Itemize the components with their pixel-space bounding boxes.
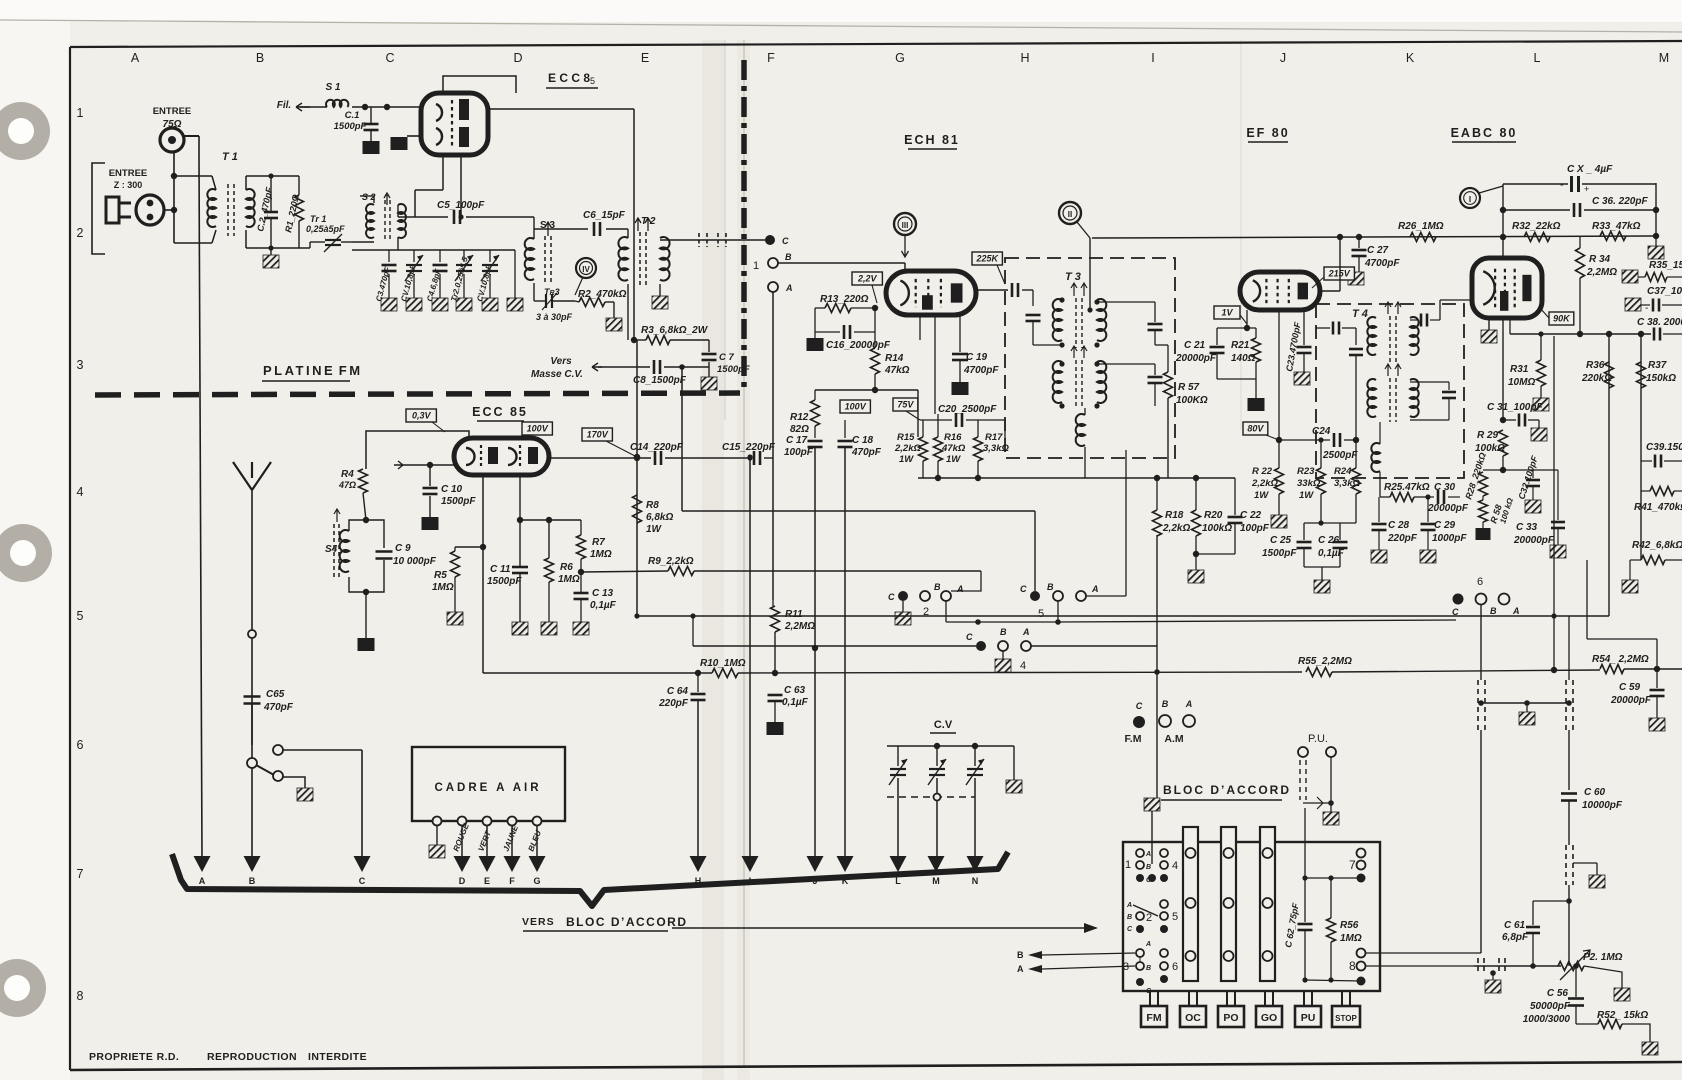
svg-text:C 17: C 17 [786,435,808,446]
svg-text:G: G [533,876,540,886]
ground under R31 [1533,398,1549,411]
ground under switch [297,788,313,801]
svg-text:B: B [1017,950,1024,960]
wires from tube down to FM coils [442,155,444,190]
svg-text:5: 5 [1172,911,1178,923]
socket 4 contacts [976,641,986,651]
svg-text:1W: 1W [1299,490,1314,501]
svg-text:1W: 1W [946,454,961,465]
svg-text:PLATINE FM: PLATINE FM [263,363,363,378]
svg-text:7: 7 [77,867,84,881]
svg-text:C 10: C 10 [441,484,463,495]
svg-text:R6: R6 [560,562,573,573]
svg-text:R37: R37 [1648,360,1667,371]
svg-text:PU: PU [1301,1012,1316,1024]
socket 1 contacts C B A [765,235,775,245]
svg-text:6,8pF: 6,8pF [1502,932,1529,943]
tube ECC85 [454,438,549,475]
svg-text:Masse C.V.: Masse C.V. [531,369,583,380]
svg-text:6: 6 [1172,961,1178,973]
svg-text:R35_15: R35_15 [1649,260,1682,271]
svg-text:4: 4 [77,485,84,499]
svg-text:E: E [641,51,649,65]
svg-text:C 7: C 7 [719,352,735,363]
svg-text:C 11: C 11 [490,564,511,575]
svg-text:1W: 1W [1254,490,1269,501]
socket5 wires [945,601,947,622]
svg-text:-: - [1645,303,1648,314]
svg-text:C: C [1020,584,1027,594]
svg-text:R31: R31 [1510,364,1529,375]
svg-text:L: L [895,876,901,886]
voltage box 2,2V [852,272,882,285]
transformer T4 dashed box [1316,304,1464,478]
svg-text:E: E [484,876,490,886]
T3 right caps [1097,301,1155,303]
svg-text:47kΩ: 47kΩ [884,365,910,376]
svg-text:1: 1 [77,106,84,120]
svg-text:-: - [1560,179,1564,191]
tube EABC80 [1472,258,1542,318]
svg-text:C 28: C 28 [1388,520,1410,531]
arrow A to bloc d'accord [194,856,211,872]
ground under P2 bus [1485,980,1501,993]
antenna terminal bracket [92,163,105,254]
svg-text:C 33: C 33 [1516,522,1538,533]
svg-text:II: II [1068,210,1072,219]
svg-text:2,2V: 2,2V [857,274,878,284]
svg-text:A: A [1091,584,1099,594]
arrow H to bloc d'accord [690,856,707,872]
svg-text:A: A [1145,851,1151,858]
ground under C29 [1420,550,1436,563]
buttons FM OC PO GO PU STOP [1149,991,1151,1006]
svg-text:E C C 8: E C C 8 [548,71,590,85]
svg-text:R23: R23 [1297,466,1315,477]
T4 bottom coil [1371,443,1380,472]
svg-text:C: C [1452,607,1459,617]
ground under C27 [1348,272,1364,285]
wires pins 7 8 to right [1366,952,1481,954]
II wire into T3 [1087,307,1092,312]
coax connector ENTREE 75 [160,128,184,152]
svg-text:1500pF: 1500pF [717,364,750,375]
svg-text:R16: R16 [944,432,962,443]
wire R14 bottom bus [815,389,918,391]
svg-text:2: 2 [1146,912,1152,924]
ground under C31 [1531,428,1547,441]
svg-text:50000pF: 50000pF [1530,1001,1571,1012]
svg-text:Tr 1: Tr 1 [310,214,326,224]
bus wire y478 extension to R18 R20 [1234,478,1236,515]
platine FM boundary dash-dot [95,393,740,395]
svg-text:0,1µF: 0,1µF [1318,548,1345,559]
wire socket1 A down [772,292,774,600]
svg-text:B: B [1127,914,1132,921]
arrow E to bloc d'accord [479,856,496,872]
heavy collector line [172,852,1008,906]
svg-text:10MΩ: 10MΩ [1508,377,1535,388]
ground [482,298,498,311]
svg-text:R54_ 2,2MΩ: R54_ 2,2MΩ [1592,654,1649,665]
arrow L to bloc d'accord [890,856,907,872]
coupling cap to T3 [975,289,1008,291]
T4 primary coils [1367,317,1376,355]
ground under R22 [1271,515,1287,528]
svg-text:R8: R8 [646,500,659,511]
svg-text:Vers: Vers [550,356,572,367]
svg-text:C 22: C 22 [1240,510,1262,521]
punch hole bottom [0,959,46,1017]
switch near antenna [273,745,283,755]
svg-text:M: M [932,876,940,886]
wire pin7 gang vertical [1480,730,1482,953]
arrow K to bloc d'accord [837,856,854,872]
bus into P2 [1474,965,1561,967]
tube ECH81 [886,271,976,315]
svg-text:C 38. 2000: C 38. 2000 [1637,317,1682,328]
svg-text:C.1: C.1 [345,110,360,121]
arrow G to bloc d'accord [529,856,546,872]
junction to C61 [1566,898,1572,904]
svg-text:C 13: C 13 [592,588,614,599]
ground under C25 C26 [1314,580,1330,593]
tube ECH81 pin wires [904,315,906,332]
ground [456,298,472,311]
svg-text:100V: 100V [527,424,549,434]
svg-text:R2_470kΩ: R2_470kΩ [578,289,627,300]
svg-text:C 18: C 18 [852,435,874,446]
EF80 cathode network C21 R21 [1246,310,1248,328]
svg-text:IV: IV [582,265,590,274]
svg-text:R42_6,8kΩ: R42_6,8kΩ [1632,540,1682,551]
svg-text:B: B [1146,965,1151,972]
svg-text:R 22: R 22 [1252,466,1273,477]
svg-text:C 26: C 26 [1318,535,1340,546]
svg-text:100pF: 100pF [784,447,814,458]
arrow I to bloc d'accord [742,856,759,872]
T4 primary right cap [1410,319,1418,321]
svg-text:1500pF: 1500pF [1262,548,1297,559]
svg-text:C14_220pF: C14_220pF [630,442,684,453]
svg-text:R5: R5 [434,570,447,581]
svg-text:470pF: 470pF [851,447,882,458]
bus wire y478 [918,477,1235,479]
svg-text:C 31_100pF: C 31_100pF [1487,402,1543,413]
frame border [70,41,1682,47]
T3 secondary coils [1053,361,1062,403]
wire from R37 col to C59 bus [1586,560,1588,639]
svg-text:R24: R24 [1334,466,1352,477]
svg-text:470pF: 470pF [263,702,294,713]
circled I [1460,188,1480,208]
svg-text:A: A [1022,627,1030,637]
svg-text:C15_220pF: C15_220pF [722,442,776,453]
svg-text:INTERDITE: INTERDITE [308,1051,367,1063]
ground [406,298,422,311]
ground under C13 [573,622,589,635]
svg-text:1MΩ: 1MΩ [590,549,612,560]
svg-text:4700pF: 4700pF [963,365,999,376]
svg-text:R4: R4 [341,469,354,480]
arrow D to bloc d'accord [454,856,471,872]
svg-text:1000pF: 1000pF [1432,533,1467,544]
svg-text:R41_470kΩ: R41_470kΩ [1634,502,1682,513]
svg-text:C: C [966,632,973,642]
slider bar 3 [1260,827,1275,981]
svg-text:B: B [934,582,941,592]
ground under C7 [701,377,717,390]
ground under C10 solid [422,517,439,530]
svg-text:C 59: C 59 [1619,682,1641,693]
T4 secondary coils [1367,379,1376,417]
svg-text:B: B [249,876,256,886]
svg-text:BLOC D’ACCORD: BLOC D’ACCORD [1163,783,1291,797]
svg-text:C: C [359,876,366,886]
voltage box 215V [1324,267,1354,280]
antenna symbol [251,490,253,745]
cadre pins [433,817,442,826]
slider bar 1 [1183,827,1198,981]
svg-text:B: B [1146,864,1151,871]
EABC80 to T4 wire [1440,299,1472,301]
svg-text:P.U.: P.U. [1308,733,1328,745]
svg-text:R52_ 15kΩ: R52_ 15kΩ [1597,1010,1648,1021]
plate bus y334 [1509,320,1511,334]
wire socket5 A extension down [1058,620,1456,622]
svg-text:2,2MΩ: 2,2MΩ [784,621,815,632]
svg-text:N: N [972,876,979,886]
svg-text:C X _ 4µF: C X _ 4µF [1567,164,1613,175]
svg-text:OC: OC [1185,1012,1201,1024]
svg-text:C 19: C 19 [966,352,988,363]
svg-text:C65: C65 [266,689,285,700]
socket 5 contacts [941,591,951,601]
ground right of CV [1013,746,1015,780]
svg-text:1W: 1W [899,454,914,465]
svg-text:C 63: C 63 [784,685,806,696]
svg-text:2,2kΩ: 2,2kΩ [1162,523,1190,534]
svg-text:4: 4 [1020,660,1026,672]
svg-text:+: + [1584,184,1589,194]
svg-text:140Ω: 140Ω [1231,353,1256,364]
wire gang right down to C60 [1568,730,1570,790]
arrow to bloc d'accord [672,927,1092,929]
svg-text:220pF: 220pF [1387,533,1418,544]
variable capacitor section [929,768,945,770]
svg-text:A: A [785,283,793,293]
svg-text:A: A [1126,902,1132,909]
svg-text:C39.150: C39.150 [1646,442,1682,453]
svg-text:GO: GO [1261,1012,1277,1024]
svg-text:D: D [513,51,522,65]
svg-text:1MΩ: 1MΩ [432,582,454,593]
wire y520 R6 R7 [520,519,581,521]
svg-text:5: 5 [590,76,595,86]
svg-text:R18: R18 [1165,510,1184,521]
socket 2 contacts [898,591,908,601]
ground under C63 solid [767,722,784,735]
svg-text:C 25: C 25 [1270,535,1292,546]
svg-text:C 61: C 61 [1504,920,1526,931]
wire socket1 B to ECH81 [778,262,905,264]
ground above bloc [1144,798,1160,811]
svg-text:ECC 85: ECC 85 [472,405,528,419]
variable capacitor section [967,768,983,770]
svg-text:1: 1 [1125,859,1131,871]
svg-text:1MΩ: 1MΩ [558,574,580,585]
svg-text:H: H [1020,51,1029,65]
svg-text:B: B [1047,582,1054,592]
wire tube plate to right [488,108,634,110]
svg-text:3 à 30pF: 3 à 30pF [536,312,573,322]
svg-text:47kΩ: 47kΩ [941,443,966,454]
T4 right cap lower [1410,381,1449,383]
svg-text:Fil.: Fil. [277,100,291,111]
svg-text:1MΩ: 1MΩ [1340,933,1362,944]
svg-text:3,3kΩ: 3,3kΩ [1334,478,1360,489]
svg-text:220pF: 220pF [658,698,689,709]
cadre a air box [412,747,565,821]
voltage box 80V [1243,422,1268,435]
svg-text:G: G [895,51,905,65]
arrow M to bloc d'accord [928,856,945,872]
svg-text:8: 8 [1349,959,1356,973]
wire between gangs [1481,702,1569,704]
svg-text:R 29: R 29 [1477,430,1499,441]
bloc d'accord box [1123,842,1380,991]
svg-text:R3_6,8kΩ_2W: R3_6,8kΩ_2W [641,325,709,336]
svg-text:BLOC D’ACCORD: BLOC D’ACCORD [566,915,688,929]
top HT bus wire [1092,236,1656,238]
svg-text:10 000pF: 10 000pF [393,556,437,567]
gang dashed pair left [1477,680,1479,730]
svg-text:100pF: 100pF [1240,523,1270,534]
wire T2 to socket C with gang dashes [660,239,770,241]
svg-text:6,8kΩ: 6,8kΩ [646,512,673,523]
wire K column [844,448,846,858]
svg-text:A: A [199,876,206,886]
round connector [136,195,164,225]
svg-text:C 29: C 29 [1434,520,1456,531]
svg-text:L: L [1534,51,1541,65]
mains plug symbol [106,197,119,223]
svg-text:0,3V: 0,3V [412,411,432,421]
svg-text:C16_20000pF: C16_20000pF [826,340,891,351]
svg-text:Z : 300: Z : 300 [114,180,143,190]
svg-text:4700pF: 4700pF [1364,258,1400,269]
svg-text:A: A [1017,964,1024,974]
punch hole top [0,102,50,160]
svg-text:S4: S4 [325,544,338,555]
ground under C32 [1525,500,1541,513]
svg-text:I: I [1469,195,1471,204]
arrow J to bloc d'accord [807,856,824,872]
svg-text:215V: 215V [1328,269,1351,279]
svg-text:C 27: C 27 [1367,245,1389,256]
svg-text:B: B [785,252,792,262]
voltage boxes 100V 75V [840,400,870,413]
ground under S3 branch [507,298,523,311]
ground under R52 [1642,1042,1658,1055]
circled IV test point [576,258,596,278]
svg-text:B: B [1000,627,1007,637]
variable capacitor section [890,768,906,770]
svg-text:C: C [1136,701,1143,711]
wire tube grid loop to R4 [366,431,469,469]
T4 mid cap [1355,345,1357,348]
svg-text:PO: PO [1223,1012,1238,1024]
ground under C11 [512,622,528,635]
svg-text:EABC 80: EABC 80 [1451,126,1518,140]
wire PU into bloc C62 column [1304,808,1306,878]
tube EF80 [1240,272,1320,310]
svg-text:1000/3000: 1000/3000 [1523,1014,1571,1025]
svg-text:C 36. 220pF: C 36. 220pF [1592,196,1648,207]
voltage box 1V [1214,306,1240,319]
ground under cadre pin1 [436,826,438,845]
ground under C33 [1550,545,1566,558]
svg-text:C.V: C.V [934,719,953,731]
wire cadre VERT [486,826,488,856]
T4 input cap [1316,327,1330,329]
svg-text:A: A [1512,606,1520,616]
svg-text:B: B [256,51,264,65]
FM trimmer bank C3 CV C4 Tr2 CV [352,249,515,251]
svg-text:C24: C24 [1312,426,1331,437]
svg-text:100KΩ: 100KΩ [1176,395,1208,406]
svg-text:2,2MΩ: 2,2MΩ [1586,267,1617,278]
svg-text:0,1µF: 0,1µF [782,697,809,708]
ground under C16 [814,332,816,338]
ground under gang wire [1519,712,1535,725]
svg-text:C: C [385,51,394,65]
wire cadre BLEU [536,826,538,856]
svg-text:B: B [1490,606,1497,616]
svg-text:R11: R11 [785,609,803,620]
svg-text:F.M: F.M [1125,733,1142,745]
long wire A from entree to collector [198,136,200,160]
svg-text:R21: R21 [1231,340,1250,351]
bus y646 socket4 [692,616,694,646]
ground under C1 [363,141,380,154]
svg-text:R17: R17 [985,432,1003,443]
svg-text:R15: R15 [897,432,915,443]
ground [381,298,397,311]
bus y616 [637,615,1609,617]
punch hole middle [0,524,52,582]
svg-text:T 3: T 3 [1065,271,1081,283]
svg-text:20000pF: 20000pF [1610,695,1652,706]
ground under R21 solid [1248,398,1265,411]
T3 lower coil [1076,414,1085,446]
ground under C19 solid [952,382,969,395]
svg-text:R 34: R 34 [1589,254,1611,265]
ground under P2 wiper [1614,988,1630,1001]
ground [432,298,448,311]
ground under T2 [659,284,661,296]
svg-text:7: 7 [1349,858,1356,872]
svg-text:A: A [956,584,964,594]
svg-text:T 1: T 1 [222,151,238,163]
svg-text:R56: R56 [1340,920,1359,931]
svg-text:75V: 75V [897,400,914,410]
svg-text:3: 3 [77,358,84,372]
svg-text:F: F [767,51,775,65]
svg-text:PROPRIETE R.D.: PROPRIETE R.D. [89,1051,179,1063]
ground right top [1655,236,1657,246]
svg-text:20000pF: 20000pF [1513,535,1555,546]
